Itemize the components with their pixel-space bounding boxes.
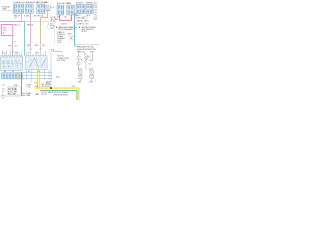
svg-text:ONLY: ONLY bbox=[50, 28, 54, 30]
wire YEL in band bbox=[17, 72, 19, 79]
wire CYAN vertical left bbox=[24, 22, 26, 56]
svg-text:GRY 8: GRY 8 bbox=[76, 15, 81, 17]
svg-text:E 50: E 50 bbox=[94, 12, 97, 14]
svg-text:G304: G304 bbox=[78, 82, 82, 84]
svg-text:CONNECTOR IS: CONNECTOR IS bbox=[57, 58, 69, 60]
wire PNK vertical from cyan bus bbox=[30, 13, 32, 43]
svg-text:GROUND DISTRIBUTION: GROUND DISTRIBUTION bbox=[77, 49, 97, 51]
svg-text:D 48: D 48 bbox=[94, 10, 97, 12]
svg-text:W/ DRL: W/ DRL bbox=[51, 21, 56, 23]
svg-text:MODULE: MODULE bbox=[76, 3, 83, 5]
ground connector left bbox=[79, 71, 82, 77]
relay (box C) bbox=[37, 1, 48, 13]
svg-text:S409: S409 bbox=[35, 86, 39, 88]
headlamp switch (box with diagonals) bbox=[26, 56, 48, 70]
svg-text:BLK: BLK bbox=[87, 56, 90, 58]
svg-text:G104: G104 bbox=[78, 69, 82, 71]
svg-text:G =: G = bbox=[2, 91, 5, 93]
svg-text:G305: G305 bbox=[89, 82, 93, 84]
svg-text:C2 =: C2 = bbox=[2, 89, 5, 91]
svg-text:B ORN: B ORN bbox=[27, 85, 32, 87]
svg-text:B: B bbox=[24, 16, 25, 18]
svg-text:BRN 241: BRN 241 bbox=[77, 21, 83, 23]
fuse (small box D) bbox=[45, 1, 55, 10]
note text S311 bbox=[57, 56, 69, 62]
svg-text:RLY 30: RLY 30 bbox=[42, 94, 47, 96]
svg-text:C1 5: C1 5 bbox=[14, 17, 17, 19]
blue connector table bbox=[7, 87, 20, 96]
wire grey long vertical bbox=[50, 52, 52, 88]
connector (box G) bbox=[86, 3, 94, 14]
connector (box E2) bbox=[67, 5, 74, 15]
connector pin hatch over bus bbox=[2, 73, 23, 79]
wire PNK from callout down bbox=[12, 36, 14, 50]
ground symbol left bottom bbox=[79, 75, 82, 80]
svg-text:5 LOW: 5 LOW bbox=[57, 40, 62, 42]
note text inside green route bbox=[48, 91, 69, 96]
wire drops from switch to bus bbox=[27, 70, 50, 83]
wire CYAN horizontal bus bbox=[0, 21, 25, 23]
svg-text:F 62: F 62 bbox=[94, 14, 97, 16]
svg-text:PNK: PNK bbox=[9, 46, 12, 48]
svg-text:S =: S = bbox=[2, 95, 4, 97]
connector C100 (box A) bbox=[14, 4, 24, 13]
connector (box F) bbox=[76, 3, 84, 14]
right panel heading text bbox=[77, 46, 97, 51]
svg-text:6 OFF: 6 OFF bbox=[57, 42, 61, 44]
wire YEL pair from switch bbox=[37, 70, 39, 88]
wire LT BLU bus 3 bbox=[1, 78, 52, 80]
separator line bottom left bbox=[0, 95, 22, 97]
svg-text:YEL 9: YEL 9 bbox=[86, 15, 90, 17]
svg-text:18: 18 bbox=[3, 61, 5, 63]
separator line right panel bbox=[76, 44, 99, 46]
svg-text:2 HDLP ON: 2 HDLP ON bbox=[57, 34, 65, 36]
svg-text:P: P bbox=[9, 66, 10, 68]
wire LT BLU bus 1 bbox=[1, 72, 52, 74]
wire grey continuation to cluster bbox=[12, 50, 14, 56]
legend bullet note 1 bbox=[56, 26, 77, 31]
svg-text:S217: S217 bbox=[50, 24, 54, 26]
wire grey continuation right bbox=[25, 21, 48, 23]
wire grey pnk continuation bbox=[30, 44, 32, 56]
svg-text:NOT USED: NOT USED bbox=[57, 60, 66, 62]
wire RED jumper U bbox=[60, 15, 72, 20]
svg-text:C1: C1 bbox=[14, 42, 16, 44]
legend bullet note 2 bbox=[79, 26, 97, 33]
wire (grey drop from box A) bbox=[21, 13, 23, 21]
text mid-left labels bbox=[27, 83, 39, 89]
text under green left bbox=[35, 92, 47, 96]
svg-text:W/O DRL:: W/O DRL: bbox=[57, 56, 65, 58]
svg-text:4 B 7: 4 B 7 bbox=[27, 53, 30, 55]
svg-text:S311: S311 bbox=[56, 77, 60, 79]
svg-text:POWER DISTRIB 10: POWER DISTRIB 10 bbox=[53, 94, 68, 96]
callout box (magenta) bbox=[2, 25, 13, 36]
svg-text:5-1: 5-1 bbox=[2, 98, 4, 100]
label: title text above fuse block bbox=[14, 2, 39, 4]
svg-text:D YEL: D YEL bbox=[34, 83, 38, 85]
cluster pin row ticks bbox=[3, 51, 46, 56]
svg-text:C1 =: C1 = bbox=[2, 85, 5, 87]
svg-text:C100: C100 bbox=[72, 86, 76, 88]
ground symbol right bottom bbox=[90, 75, 94, 80]
svg-text:B 24: B 24 bbox=[94, 5, 97, 7]
svg-text:DK BLU 302: DK BLU 302 bbox=[76, 18, 85, 20]
svg-text:ORN: ORN bbox=[35, 45, 38, 47]
background bbox=[0, 0, 100, 100]
text under top boxes bbox=[14, 15, 90, 27]
svg-text:G105: G105 bbox=[89, 69, 93, 71]
wire CYAN stub to S311 bbox=[51, 49, 62, 51]
legend numbered list bbox=[54, 26, 74, 45]
svg-text:RED 2 C: RED 2 C bbox=[14, 24, 21, 26]
svg-text:C 36: C 36 bbox=[94, 7, 97, 9]
wire BLK main drop bbox=[21, 72, 23, 96]
svg-text:PNK: PNK bbox=[27, 45, 30, 47]
wire GRN route bbox=[40, 91, 77, 100]
svg-text:DIM 12: DIM 12 bbox=[68, 34, 73, 36]
svg-text:W/ DRL: W/ DRL bbox=[81, 31, 87, 33]
svg-text:H 3 K: H 3 K bbox=[36, 53, 39, 55]
text under cluster boxes bbox=[4, 71, 40, 73]
instrument cluster (big box) bbox=[1, 56, 23, 71]
svg-text:W/ DRL: W/ DRL bbox=[50, 26, 55, 28]
connector chevrons on wires bbox=[12, 49, 42, 53]
wire ORN from fuse bbox=[41, 11, 50, 44]
harness bus band bbox=[1, 72, 23, 79]
splice S217 curve bbox=[48, 22, 56, 30]
svg-text:-1: -1 bbox=[95, 80, 97, 82]
svg-text:GRY 145: GRY 145 bbox=[37, 16, 43, 18]
splice label bbox=[46, 77, 60, 86]
svg-text:FUSE BLOCK UNDERHOOD C2: FUSE BLOCK UNDERHOOD C2 bbox=[14, 2, 39, 4]
wire grey orn continuation bbox=[40, 44, 42, 56]
svg-text:C205 B3: C205 B3 bbox=[61, 24, 67, 26]
pin list right margin bbox=[94, 1, 97, 21]
svg-text:LO 2: LO 2 bbox=[89, 64, 92, 66]
junction dot bbox=[50, 87, 52, 89]
wire YEL route bbox=[35, 88, 79, 100]
svg-text:SENSOR: SENSOR bbox=[86, 3, 94, 5]
svg-text:1 5 9 D: 1 5 9 D bbox=[2, 53, 6, 55]
inline connector labels mid wires bbox=[27, 45, 45, 47]
left connector pin labels bbox=[2, 84, 18, 97]
svg-text:H 86: H 86 bbox=[94, 19, 97, 21]
wire LT BLU bus 2 bbox=[1, 75, 52, 77]
connector (box E1) bbox=[57, 5, 64, 15]
dimmer circuit right bbox=[78, 50, 95, 71]
svg-text:B10: B10 bbox=[57, 17, 60, 19]
svg-text:640: 640 bbox=[42, 45, 45, 47]
svg-text:22: 22 bbox=[7, 61, 9, 63]
svg-text:E BLK: E BLK bbox=[90, 52, 94, 54]
blue table rows mid-bottom bbox=[22, 92, 31, 97]
svg-text:1532: 1532 bbox=[3, 30, 7, 32]
svg-text:150: 150 bbox=[89, 60, 92, 62]
svg-text:G 74: G 74 bbox=[94, 17, 97, 19]
splice text above yellow bus bbox=[35, 83, 50, 88]
svg-text:C2 GRY 18: C2 GRY 18 bbox=[77, 23, 85, 25]
svg-text:E: E bbox=[16, 61, 17, 63]
wire RED stub bbox=[75, 13, 77, 16]
wire CYAN vertical right bbox=[75, 13, 77, 47]
connector C2 (box B) bbox=[26, 4, 34, 13]
svg-text:PNK 139: PNK 139 bbox=[14, 15, 20, 17]
svg-text:39: 39 bbox=[15, 46, 17, 48]
label text above boxes E bbox=[57, 3, 70, 5]
label: connector C228 title bbox=[67, 3, 71, 5]
label: leader note left bbox=[2, 6, 14, 11]
svg-text:C 240: C 240 bbox=[27, 87, 31, 89]
svg-text:B+ 12: B+ 12 bbox=[51, 7, 55, 9]
ground connector right bbox=[90, 71, 93, 77]
svg-text:FOG LP: FOG LP bbox=[42, 92, 48, 94]
inline connector marks near pink wire bbox=[9, 42, 17, 48]
